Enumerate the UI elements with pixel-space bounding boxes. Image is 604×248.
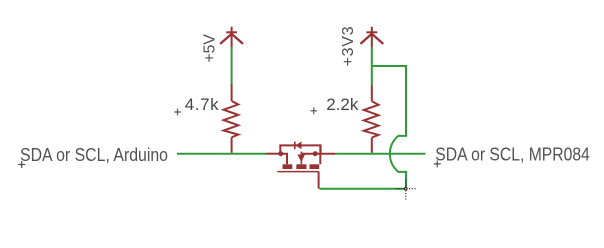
resistor R1 4.7k (224, 84, 239, 153)
gate line (277, 171, 318, 173)
origin ring (405, 187, 408, 190)
svg-text:+3V3: +3V3 (340, 26, 357, 66)
drain channel connection (283, 154, 288, 165)
mosfet Q1 (n-channel, horizontal) (267, 142, 336, 189)
junction crosshair (part origin marker) (396, 180, 417, 200)
wire: 3V3 vertical net (371, 47, 373, 86)
channel bar 2 (296, 164, 306, 169)
value label 2.2k (310, 95, 358, 114)
channel bar 1 (283, 164, 293, 169)
value label 4.7k (174, 95, 219, 115)
wire: MPR084 SDA horizontal net (335, 153, 426, 155)
body diode loop (280, 145, 320, 153)
body arrow stub (300, 152, 302, 165)
wire: Arduino SDA horizontal net (177, 153, 267, 155)
gate pin down (318, 172, 320, 189)
power +5V symbol (220, 27, 243, 48)
net label: SDA or SCL, MPR084 (434, 145, 590, 168)
wire: 5V vertical net (231, 47, 233, 84)
resistor R2 2.2k (364, 86, 379, 153)
svg-text:SDA or SCL, Arduino: SDA or SCL, Arduino (20, 145, 168, 165)
svg-text:4.7k: 4.7k (185, 95, 219, 114)
power +3V3 symbol (360, 27, 383, 48)
pin circle left (278, 151, 283, 156)
channel bar 3 (310, 164, 320, 169)
pin circle right (313, 151, 318, 156)
source main line (301, 153, 335, 155)
body arrow head (297, 155, 305, 163)
source channel connection (319, 145, 321, 164)
svg-text:2.2k: 2.2k (326, 95, 359, 114)
pin wire left (drain side) (267, 153, 279, 155)
diode cathode bar (294, 142, 296, 150)
svg-text:+5V: +5V (202, 34, 219, 63)
wire: gate to 3V3 bottom run (320, 188, 407, 190)
diode triangle (296, 142, 302, 150)
wire: 3V3 branch to gate (with hop arc) (372, 66, 406, 189)
svg-text:SDA or SCL, MPR084: SDA or SCL, MPR084 (435, 145, 590, 165)
net label: SDA or SCL, Arduino (18, 145, 168, 168)
